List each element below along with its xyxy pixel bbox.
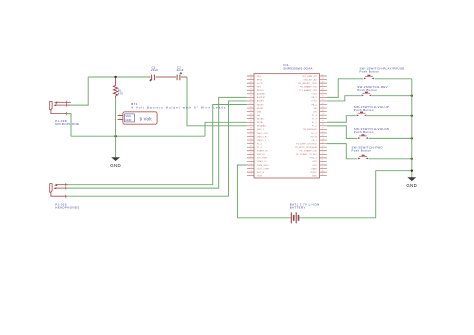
- svg-text:18: 18: [322, 124, 324, 126]
- svg-text:17: 17: [322, 128, 324, 130]
- svg-text:GND: GND: [312, 175, 317, 177]
- svg-text:AGXPM: AGXPM: [257, 96, 265, 99]
- battery holder BT1: [118, 112, 158, 124]
- svg-text:29: 29: [322, 85, 324, 87]
- svg-text:XRF_IN: XRF_IN: [257, 154, 265, 156]
- wire ground rail jog to IC pin 14: [205, 122, 247, 136]
- wire IC pin to SW-3 FWD: [327, 144, 358, 159]
- svg-text:53: 53: [250, 146, 252, 148]
- svg-text:41: 41: [250, 103, 252, 105]
- svg-text:VDD_CORE: VDD_CORE: [257, 168, 270, 170]
- svg-text:GM: GM: [313, 108, 317, 110]
- svg-text:PA_6: PA_6: [312, 103, 318, 106]
- svg-text:MICBIAS: MICBIAS: [257, 125, 267, 128]
- svg-text:1: 1: [251, 160, 252, 162]
- svg-text:22uF: 22uF: [151, 68, 158, 72]
- svg-text:55: 55: [250, 153, 252, 155]
- svg-text:PE_XUAMP_TX_INO: PE_XUAMP_TX_INO: [296, 153, 317, 156]
- svg-text:46: 46: [250, 121, 252, 123]
- wire IC pin to SW-1 PLAY/PAUSE: [327, 79, 363, 98]
- wire R1 to battery holder / ground rail: [115, 98, 117, 136]
- wire IC pin to SW-1 VOLUP: [327, 116, 356, 123]
- svg-text:20: 20: [322, 117, 324, 119]
- svg-text:42: 42: [250, 106, 252, 108]
- wire ground rail: [71, 135, 205, 137]
- svg-text:56: 56: [250, 156, 252, 158]
- wire cap chain pins: [148, 76, 187, 78]
- wire right ground rail: [411, 79, 413, 178]
- svg-text:33: 33: [322, 170, 324, 172]
- svg-text:VLCD: VLCD: [257, 83, 263, 85]
- svg-text:GND_1: GND_1: [257, 129, 265, 131]
- svg-text:15: 15: [322, 135, 324, 137]
- svg-text:21: 21: [322, 113, 324, 115]
- svg-text:PB_SAAMP_TX0: PB_SAAMP_TX0: [300, 85, 318, 88]
- connector PJ-398 microphone jack: [50, 101, 71, 116]
- svg-text:GP3: GP3: [312, 161, 317, 163]
- capacitor C1 22uF: [151, 74, 156, 81]
- svg-text:2: 2: [251, 163, 252, 165]
- wire VCC top rail: [88, 76, 187, 78]
- svg-text:GND: GND: [126, 118, 132, 122]
- svg-text:GE1: GE1: [257, 76, 262, 78]
- svg-text:43: 43: [250, 110, 252, 112]
- svg-text:32: 32: [322, 74, 324, 76]
- svg-text:RF12: RF12: [257, 79, 263, 81]
- wire headphone tip to IC pin 9: [68, 104, 247, 184]
- svg-text:45: 45: [250, 117, 252, 119]
- svg-text:27: 27: [322, 92, 324, 94]
- svg-text:DMIC_CLK: DMIC_CLK: [257, 133, 269, 135]
- svg-text:LVD4: LVD4: [311, 101, 317, 103]
- op IC1 body: [254, 74, 320, 178]
- svg-text:PL_3: PL_3: [312, 115, 318, 117]
- svg-text:26: 26: [322, 96, 324, 98]
- wire SW-1 PLAY/PAUSE to ground rail: [375, 78, 412, 80]
- svg-text:MICB1: MICB1: [257, 108, 264, 110]
- svg-text:GN4: GN4: [257, 111, 262, 113]
- junction SW-2 REV / ground rail: [411, 95, 413, 97]
- svg-text:37: 37: [250, 89, 252, 91]
- IC1 left pin stubs: [247, 76, 254, 176]
- svg-text:54: 54: [250, 149, 252, 151]
- svg-text:44: 44: [250, 113, 252, 115]
- ground symbol left: [110, 136, 121, 168]
- svg-text:470: 470: [118, 91, 123, 95]
- svg-text:VCC: VCC: [126, 114, 132, 118]
- svg-text:24: 24: [322, 103, 324, 105]
- svg-text:HEADPHONES: HEADPHONES: [55, 206, 79, 210]
- svg-text:16: 16: [322, 131, 324, 133]
- svg-text:51: 51: [250, 138, 252, 140]
- IC1 left pin name labels: [257, 76, 270, 178]
- svg-text:13: 13: [322, 142, 324, 144]
- wire SW-2 VOLDN to ground rail: [369, 137, 412, 139]
- svg-text:48: 48: [250, 128, 252, 130]
- wire headphone ring to IC pin 7: [66, 97, 247, 188]
- IC1 right pin name labels: [295, 76, 318, 178]
- svg-text:3: 3: [251, 167, 252, 169]
- junction SW-1 VOLUP / ground rail: [411, 115, 413, 117]
- svg-text:GND: GND: [110, 163, 121, 168]
- svg-text:PL_1: PL_1: [312, 122, 318, 124]
- IC1 right pin stubs: [320, 76, 327, 176]
- svg-text:RELVD: RELVD: [257, 90, 265, 92]
- wire IC pin to SW-2 VOLDN: [327, 126, 358, 139]
- svg-text:MICB1_: MICB1_: [257, 122, 266, 124]
- svg-text:SNR9300W1-0GAA: SNR9300W1-0GAA: [283, 66, 312, 70]
- svg-text:6: 6: [322, 167, 323, 169]
- wire IC pin to SW-2 REV: [327, 96, 361, 101]
- svg-text:YK1_SMB_INT: YK1_SMB_INT: [302, 76, 317, 78]
- svg-text:Push Button: Push Button: [354, 130, 374, 134]
- svg-text:52: 52: [250, 142, 252, 144]
- svg-text:35: 35: [250, 81, 252, 83]
- svg-text:XUART_IN: XUART_IN: [257, 150, 268, 153]
- svg-text:8: 8: [322, 160, 323, 162]
- svg-text:Push Button: Push Button: [354, 108, 374, 112]
- svg-text:4: 4: [251, 170, 252, 172]
- svg-text:VM2_INT_AU: VM2_INT_AU: [303, 78, 317, 81]
- svg-text:LVD3: LVD3: [311, 94, 317, 96]
- svg-text:RST_N: RST_N: [257, 172, 265, 174]
- svg-text:HA: HA: [257, 114, 261, 117]
- svg-text:DMIC1_L: DMIC1_L: [257, 140, 267, 142]
- svg-text:TEST: TEST: [257, 175, 263, 177]
- svg-text:GND: GND: [406, 183, 417, 188]
- svg-text:VREG_IO: VREG_IO: [257, 161, 267, 163]
- push button switch SW-2 VOLDN: [358, 134, 368, 139]
- wire SW-3 FWD to ground rail: [369, 158, 412, 160]
- capacitor C2 22uF: [176, 74, 181, 81]
- svg-text:40: 40: [250, 99, 252, 101]
- svg-text:9: 9: [322, 156, 323, 158]
- polarity mark C1: [149, 79, 151, 81]
- svg-text:28: 28: [322, 89, 324, 91]
- junction SW-3 FWD / ground rail: [411, 158, 413, 160]
- svg-text:P1_6: P1_6: [257, 147, 263, 149]
- svg-text:25: 25: [322, 99, 324, 101]
- svg-text:11: 11: [322, 149, 324, 151]
- svg-text:PA_2: PA_2: [312, 96, 318, 99]
- svg-text:PWM_GPIO: PWM_GPIO: [257, 165, 269, 167]
- svg-text:VBAT: VBAT: [311, 167, 317, 170]
- svg-text:14: 14: [322, 138, 324, 140]
- svg-text:22uF: 22uF: [177, 68, 184, 72]
- svg-text:INT_B: INT_B: [311, 136, 318, 138]
- resistor R1 470: [113, 78, 117, 98]
- svg-text:MICB2: MICB2: [257, 104, 264, 106]
- svg-text:GR: GR: [314, 111, 318, 113]
- svg-text:AGGPL: AGGPL: [257, 100, 265, 103]
- svg-text:VDDIO: VDDIO: [310, 172, 317, 174]
- svg-text:MICB2_: MICB2_: [257, 119, 266, 121]
- push button switch SW-3 FWD: [358, 155, 368, 160]
- svg-text:JT1_A3AMP_JPN: JT1_A3AMP_JPN: [299, 89, 317, 92]
- svg-text:49: 49: [250, 131, 252, 133]
- svg-text:MICROPHONE: MICROPHONE: [55, 122, 79, 126]
- svg-text:PL_5: PL_5: [312, 126, 318, 128]
- junction SW-2 VOLDN / ground rail: [411, 137, 413, 139]
- svg-text:9 Volt: 9 Volt: [140, 116, 153, 121]
- push button switch SW-1 PLAY/PAUSE: [364, 75, 374, 80]
- wire mic ring to VCC rail: [71, 77, 88, 105]
- svg-text:GP1: GP1: [257, 86, 262, 88]
- svg-text:PB_1: PB_1: [311, 140, 317, 142]
- junction battery return / ground rail: [411, 170, 413, 172]
- svg-text:22: 22: [322, 110, 324, 112]
- svg-text:Push Button: Push Button: [357, 88, 377, 92]
- svg-text:Push Button: Push Button: [360, 69, 380, 73]
- svg-text:Push Button: Push Button: [352, 149, 372, 153]
- svg-text:X25_PWR: X25_PWR: [257, 158, 268, 160]
- wire SW-1 VOLUP to ground rail: [367, 115, 412, 117]
- svg-text:BATTERY: BATTERY: [290, 206, 306, 210]
- IC1 left pin numbers: [250, 74, 252, 176]
- svg-text:10: 10: [322, 153, 324, 155]
- svg-text:12: 12: [322, 146, 324, 148]
- svg-text:PE_XUAMP_C30: PE_XUAMP_C30: [300, 150, 318, 153]
- IC1 right pin numbers: [322, 74, 324, 176]
- wire C2 to IC pin 15: [187, 77, 247, 126]
- svg-text:50: 50: [250, 135, 252, 137]
- svg-text:36: 36: [250, 85, 252, 87]
- wire IC pin 26 to battery positive: [237, 165, 290, 218]
- svg-text:5: 5: [251, 174, 252, 176]
- wire headphone sleeve to IC pin 8: [67, 101, 247, 196]
- svg-text:31: 31: [322, 78, 324, 80]
- ground symbol right: [406, 177, 417, 188]
- junction rail/R1 top: [114, 76, 116, 78]
- svg-text:19: 19: [322, 121, 324, 123]
- push button switch SW-2 REV: [361, 92, 371, 97]
- push button switch SW-1 VOLUP: [356, 112, 366, 117]
- svg-text:23: 23: [322, 106, 324, 108]
- polarity mark C2: [180, 72, 182, 74]
- svg-text:GP2: GP2: [312, 165, 317, 167]
- svg-text:PX_ATPE_CPO/SO2: PX_ATPE_CPO/SO2: [296, 142, 317, 145]
- svg-text:PX_ATPX_CPU/SEN6: PX_ATPX_CPU/SEN6: [295, 146, 318, 149]
- wire SW-2 REV to ground rail: [372, 95, 412, 97]
- battery BAT1 3.7V LI-ION: [291, 212, 298, 223]
- svg-text:AGWRK: AGWRK: [257, 93, 266, 96]
- svg-text:PE_A314NT_TX00: PE_A314NT_TX00: [298, 82, 317, 85]
- svg-text:38: 38: [250, 92, 252, 94]
- svg-text:30: 30: [322, 81, 324, 83]
- svg-text:GND_3: GND_3: [310, 158, 318, 160]
- junction rail/battery-holder ground: [114, 135, 116, 137]
- svg-text:P1_2: P1_2: [257, 143, 263, 145]
- svg-text:33: 33: [250, 74, 252, 76]
- svg-text:PL_7: PL_7: [312, 119, 318, 121]
- connector PJ-055 headphone jack: [50, 183, 69, 198]
- svg-text:12: 12: [322, 174, 324, 176]
- wire battery negative to ground rail right: [300, 171, 412, 218]
- wire mic sleeve to ground rail: [66, 114, 71, 137]
- svg-text:DMIC1_R: DMIC1_R: [257, 136, 267, 138]
- svg-text:34: 34: [250, 78, 252, 80]
- svg-text:PG_4: PG_4: [311, 133, 317, 135]
- svg-text:39: 39: [250, 96, 252, 98]
- svg-text:7: 7: [322, 163, 323, 165]
- svg-text:47: 47: [250, 124, 252, 126]
- svg-text:PE_ASPWM1: PE_ASPWM1: [303, 128, 317, 131]
